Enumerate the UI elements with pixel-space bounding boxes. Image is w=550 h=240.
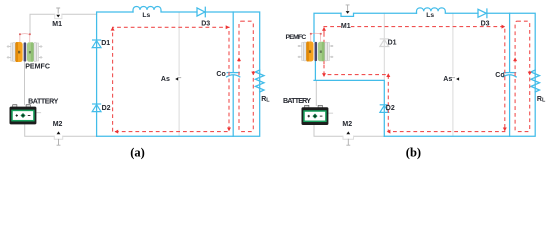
svg-text:As: As	[443, 76, 452, 83]
svg-text:D2: D2	[102, 105, 111, 112]
svg-text:(b): (b)	[406, 145, 421, 159]
svg-text:M1: M1	[341, 23, 351, 30]
svg-text:D2: D2	[386, 105, 395, 112]
svg-text:M2: M2	[53, 121, 63, 128]
svg-text:BATTERY: BATTERY	[28, 98, 58, 106]
svg-text:Co: Co	[495, 72, 504, 79]
svg-text:Co: Co	[216, 71, 225, 78]
svg-text:RL: RL	[537, 96, 546, 104]
svg-text:D3: D3	[201, 21, 210, 28]
svg-text:D1: D1	[101, 40, 110, 47]
svg-text:RL: RL	[261, 96, 270, 104]
svg-text:PEMFC: PEMFC	[25, 62, 50, 70]
svg-text:As: As	[161, 76, 170, 83]
svg-text:Ls: Ls	[426, 12, 434, 19]
svg-text:M2: M2	[342, 121, 352, 128]
svg-text:PEMFC: PEMFC	[286, 34, 307, 41]
svg-text:M1: M1	[52, 21, 62, 28]
svg-text:BATTERY: BATTERY	[283, 97, 311, 105]
svg-text:D3: D3	[481, 21, 490, 28]
svg-text:D1: D1	[388, 39, 397, 46]
svg-text:(a): (a)	[130, 145, 145, 159]
svg-text:Ls: Ls	[142, 12, 150, 19]
